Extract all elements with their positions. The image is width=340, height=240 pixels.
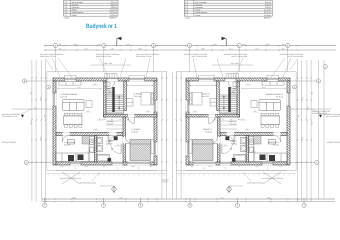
outer wall bottom: [56, 162, 154, 165]
svg-text:6,51 m²: 6,51 m²: [265, 1, 272, 4]
section mark A-A bottom: [113, 186, 115, 193]
outer wall left: [53, 81, 56, 165]
svg-text:Budynek nr 1: Budynek nr 1: [86, 23, 117, 30]
svg-text:WEŁNA MIN. 20 CM: WEŁNA MIN. 20 CM: [136, 55, 152, 58]
svg-text:1.4: 1.4: [185, 6, 188, 9]
svg-text:1.6: 1.6: [65, 11, 68, 14]
bottom grid bubble 1 right unit: [302, 203, 306, 207]
right unit plan (mirrored): [176, 37, 340, 203]
interior wall corridor south: [56, 133, 123, 136]
interior wall stair right: [124, 81, 127, 111]
svg-text:11,30 m²: 11,30 m²: [110, 14, 118, 17]
svg-text:Kuchnia: Kuchnia: [72, 4, 80, 7]
terrace outline: [56, 170, 157, 172]
axis line B: [27, 80, 53, 82]
left dimension line: [35, 60, 37, 202]
left dimension line: [31, 60, 33, 202]
svg-text:KOSTKA BRUKOWA: KOSTKA BRUKOWA: [80, 182, 97, 185]
bottom grid bubble 2 left unit: [101, 203, 105, 207]
left dimension line: [40, 60, 42, 202]
svg-text:Łazienka: Łazienka: [72, 6, 81, 9]
fridge: [68, 140, 75, 145]
far right overall dimension line: [323, 60, 325, 199]
interior wall hall/living: [104, 81, 107, 117]
armchair: [86, 101, 92, 108]
dryer dark: [108, 158, 112, 162]
entrance steps: [105, 74, 118, 79]
chairs: [65, 113, 82, 127]
svg-text:Łazienka: Łazienka: [195, 6, 204, 9]
svg-text:STYROPIAN 15 CM: STYROPIAN 15 CM: [312, 112, 328, 115]
window O7 right wall bedroom1: [154, 100, 158, 112]
pantry hatched: [82, 136, 90, 144]
top grid bubble 1: [53, 43, 57, 47]
interior wall bedroom1 south: [104, 115, 158, 118]
door kitchen swing: [63, 136, 70, 143]
wardrobe bedroom1: [127, 99, 134, 107]
svg-text:4,95 m²: 4,95 m²: [106, 142, 112, 145]
terrace slope X: [62, 172, 80, 184]
cabinet top wall: [59, 82, 81, 86]
svg-text:4,95 m²: 4,95 m²: [111, 6, 118, 9]
svg-text:4,61: 4,61: [119, 196, 122, 199]
left axis bubble A: [24, 160, 28, 164]
svg-text:Hol + schody: Hol + schody: [195, 1, 206, 4]
entrance dimension line: [90, 64, 131, 66]
svg-text:4,61: 4,61: [126, 43, 129, 46]
svg-text:4,93: 4,93: [73, 43, 76, 46]
bed bedroom2 cross-hatched: [130, 140, 151, 161]
svg-text:68,98 m²: 68,98 m²: [110, 17, 118, 20]
window O8 right wall bedroom2: [154, 142, 158, 156]
svg-text:11,30 m²: 11,30 m²: [131, 130, 138, 133]
stair stringer: [112, 87, 114, 112]
right axis bubble upper: [323, 64, 327, 68]
door bath swing: [109, 136, 118, 145]
room table right unit: [184, 0, 272, 16]
left unit plan: [2, 37, 168, 203]
svg-text:STYROPIAN 15 CM: STYROPIAN 15 CM: [2, 115, 18, 118]
svg-text:Kuchnia: Kuchnia: [195, 4, 203, 7]
svg-text:1.2: 1.2: [65, 1, 68, 4]
far right dimension line: [318, 60, 320, 199]
bottom dimension line 1: [42, 198, 335, 200]
floor drain: [111, 148, 113, 150]
svg-text:99: 99: [59, 43, 61, 46]
room table left unit: [64, 0, 119, 16]
outer wall top: [53, 78, 157, 81]
svg-text:Pokój: Pokój: [72, 14, 77, 17]
staircase: [106, 95, 124, 113]
sofa: [63, 100, 84, 111]
entrance door top wall: [107, 78, 118, 82]
washer: [114, 136, 118, 140]
svg-text:9,42 m²: 9,42 m²: [64, 143, 70, 146]
svg-text:11,30 m²: 11,30 m²: [264, 14, 272, 17]
kitchen counter bottom: [56, 153, 90, 162]
svg-text:9,42 m²: 9,42 m²: [111, 4, 118, 7]
wardrobe wiatrolap: [104, 82, 110, 87]
svg-text:1.7: 1.7: [65, 14, 68, 17]
svg-text:6,51 m²: 6,51 m²: [107, 122, 113, 125]
svg-text:1,01: 1,01: [97, 43, 100, 46]
svg-text:3,90 m²: 3,90 m²: [108, 91, 114, 94]
leader lines: [52, 58, 60, 77]
dining table: [64, 116, 83, 125]
svg-text:1.3: 1.3: [65, 4, 68, 7]
svg-text:1.4: 1.4: [65, 6, 68, 9]
hall under-stair lines: [106, 121, 123, 129]
svg-text:1.3: 1.3: [185, 4, 188, 7]
window O1 top wall: [65, 78, 77, 82]
upper flight treads: [106, 88, 112, 94]
bottom grid bubble 3 right unit: [188, 203, 192, 207]
svg-text:1.6: 1.6: [185, 11, 188, 14]
paving ticks on terrace edge: [49, 174, 164, 177]
toilet: [96, 145, 102, 152]
svg-text:Pokój dzienny: Pokój dzienny: [195, 11, 207, 14]
axis line A: [28, 162, 53, 164]
bottom dimension line 2: [42, 201, 335, 203]
middle shared dimension line: [171, 72, 173, 199]
bed bedroom1: [141, 93, 154, 106]
top grid bubble 2: [102, 43, 106, 47]
sink: [90, 139, 94, 145]
top dimension line 1: [44, 45, 336, 47]
door bedroom1: [128, 117, 135, 124]
interior dimension marks: [92, 84, 98, 86]
svg-text:11,14 m²: 11,14 m²: [134, 95, 141, 98]
svg-text:4,93: 4,93: [72, 196, 75, 199]
oven: [78, 155, 84, 161]
window O4 bottom wall kitchen: [70, 162, 81, 166]
svg-text:Pokój: Pokój: [195, 14, 200, 17]
svg-text:WEŁNA MIN. 20 CM: WEŁNA MIN. 20 CM: [40, 55, 56, 58]
svg-text:WEŁNA MIN. 20 CM: WEŁNA MIN. 20 CM: [96, 55, 112, 58]
svg-text:21,76 m²: 21,76 m²: [264, 11, 272, 14]
entrance door swing: [107, 81, 115, 89]
svg-text:1.7: 1.7: [185, 14, 188, 17]
kitchen counter right: [89, 137, 95, 162]
bottom grid bubble 1 left unit: [43, 203, 47, 207]
bedroom1 interior dim line: [127, 84, 153, 86]
svg-text:Pokój dzienny: Pokój dzienny: [72, 11, 84, 14]
svg-text:21,76 m²: 21,76 m²: [110, 11, 118, 14]
right-side dimension line: [166, 72, 168, 199]
basin: [96, 137, 102, 143]
window O3 left wall: [53, 93, 57, 106]
svg-text:1,50 x 1,50: 1,50 x 1,50: [104, 62, 112, 65]
svg-text:Hol + schody: Hol + schody: [72, 1, 83, 4]
interior wall hall/bedroom2: [123, 117, 126, 162]
svg-text:21,76 m²: 21,76 m²: [60, 95, 67, 98]
right-side dimension line: [161, 72, 163, 199]
left dimension line: [45, 60, 47, 202]
bottom grid bubble 2 right unit: [235, 203, 239, 207]
window sill marks outside O1: [65, 75, 77, 78]
window O2 top wall: [129, 78, 145, 82]
svg-text:RZĘDNA TERENU: RZĘDNA TERENU: [2, 141, 17, 144]
cooker: [68, 155, 74, 161]
eaves outline: [47, 72, 167, 171]
window marker circle: [47, 85, 51, 89]
stair arrows: [118, 95, 120, 97]
svg-text:4,95 m²: 4,95 m²: [265, 6, 272, 9]
living room interior dim line: [58, 88, 101, 90]
section mark A-A top: [116, 39, 118, 47]
top dimension line 2: [44, 49, 336, 51]
cabinet bath: [108, 136, 114, 141]
bathtub: [97, 154, 110, 161]
window O5 bottom wall bath: [112, 162, 123, 166]
svg-text:68,98 m²: 68,98 m²: [264, 17, 272, 20]
outer wall right: [154, 81, 157, 165]
svg-text:9,42 m²: 9,42 m²: [265, 4, 272, 7]
bath door leaf and swing: [120, 144, 122, 154]
door bedroom2: [126, 137, 133, 144]
svg-text:6,51 m²: 6,51 m²: [111, 1, 118, 4]
window O6 bottom wall bedroom: [127, 162, 150, 166]
interior wall kitchen/bath: [95, 136, 98, 163]
black level marker: [21, 115, 24, 118]
bottom grid bubble 3 left unit: [138, 203, 142, 207]
left axis bubble B: [23, 79, 27, 83]
top grid bubble 3: [151, 43, 155, 47]
svg-text:1.2: 1.2: [185, 1, 188, 4]
window sill marks outside O2: [129, 75, 145, 78]
wardrobe bedroom2: [151, 140, 154, 154]
